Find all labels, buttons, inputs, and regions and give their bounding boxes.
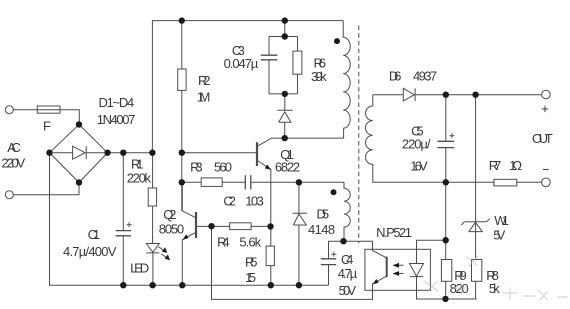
capacitor C1 bbox=[122, 153, 124, 286]
wire top rail bbox=[152, 21, 343, 153]
optocoupler box N.P521 bbox=[365, 249, 431, 290]
svg-text:D6: D6 bbox=[389, 68, 402, 83]
wire ground rail left bbox=[50, 153, 329, 286]
junction Q1 collector / primary node bbox=[282, 135, 288, 141]
transformer secondary winding bbox=[366, 95, 373, 183]
svg-text:220V: 220V bbox=[1, 156, 25, 171]
bridge D1-D4 bbox=[50, 125, 108, 183]
svg-text:AC: AC bbox=[7, 140, 21, 155]
capacitor C3 bbox=[268, 37, 270, 94]
resistor R7 bbox=[494, 179, 517, 186]
svg-text:C2: C2 bbox=[223, 194, 236, 209]
wire negative line bbox=[372, 181, 541, 183]
output - terminal bbox=[542, 178, 551, 187]
transistor Q2 bbox=[195, 212, 197, 238]
capacitor C5 bbox=[445, 95, 447, 183]
svg-text:50V: 50V bbox=[339, 283, 357, 298]
transformer feedback winding bbox=[344, 182, 350, 241]
wire C5 bottom to R9 bbox=[445, 182, 447, 299]
resistor R9 bbox=[441, 260, 451, 282]
svg-text:D5: D5 bbox=[317, 206, 330, 221]
svg-text:W1: W1 bbox=[494, 213, 509, 228]
svg-text:Q2: Q2 bbox=[163, 207, 176, 222]
junction W1 branch on +OUT line bbox=[472, 92, 478, 98]
zener W1 + R8 branch bbox=[475, 95, 477, 299]
junction snubber top on HV rail bbox=[282, 17, 288, 23]
svg-text:C1: C1 bbox=[88, 227, 101, 242]
svg-text:4148: 4148 bbox=[308, 222, 335, 237]
junction bridge bottom vertex bbox=[76, 179, 82, 185]
junction Q1 emitter / R4 / R5 node bbox=[267, 223, 273, 229]
input terminal L bbox=[5, 106, 13, 114]
svg-text:LED: LED bbox=[130, 260, 149, 275]
svg-text:220µ/: 220µ/ bbox=[402, 137, 431, 152]
resistor R1 bbox=[152, 153, 154, 244]
svg-text:R2: R2 bbox=[198, 73, 211, 88]
wire bbox=[13, 110, 79, 125]
junction feedback winding / C4 / opto node bbox=[340, 238, 346, 244]
svg-text:4.7µ/400V: 4.7µ/400V bbox=[63, 244, 117, 259]
wire opto LED anode bbox=[417, 240, 446, 263]
junction C3-R6 top bracket bbox=[282, 33, 288, 39]
transformer polarity dot feedback bbox=[331, 189, 337, 195]
svg-text:C4: C4 bbox=[341, 252, 354, 267]
wire R4 line bbox=[197, 225, 271, 227]
junction C1 top on DC rail bbox=[120, 150, 126, 156]
diode snubber bbox=[277, 110, 293, 138]
junction D5 bottom on ground rail bbox=[296, 282, 302, 288]
svg-text:N.P521: N.P521 bbox=[376, 225, 412, 240]
diode inside bridge bbox=[53, 146, 104, 159]
junction R2 top on HV rail bbox=[179, 17, 185, 23]
svg-text:R4: R4 bbox=[217, 235, 230, 250]
svg-text:560: 560 bbox=[214, 159, 232, 174]
junction Q2 emitter on ground rail bbox=[179, 282, 185, 288]
transformer primary winding bbox=[343, 21, 350, 129]
svg-text:4.7µ: 4.7µ bbox=[338, 266, 358, 281]
wire bbox=[13, 183, 79, 195]
svg-text:R7: R7 bbox=[489, 158, 502, 173]
svg-text:R5: R5 bbox=[245, 254, 258, 269]
junction R5 bottom on ground rail bbox=[268, 282, 274, 288]
input terminal N bbox=[5, 191, 13, 199]
svg-text:5.6k: 5.6k bbox=[239, 235, 261, 250]
opto transistor bbox=[386, 257, 388, 278]
svg-text:D1~D4: D1~D4 bbox=[99, 95, 135, 110]
resistor R6 bbox=[297, 37, 299, 94]
svg-text:5k: 5k bbox=[489, 281, 500, 296]
junction C1 bottom on ground rail bbox=[120, 282, 126, 288]
junction R2 bottom / Q1 base node bbox=[179, 150, 185, 156]
svg-text:0.047µ: 0.047µ bbox=[224, 56, 259, 71]
transformer polarity dot primary bbox=[334, 38, 340, 44]
resistor R2 bbox=[181, 21, 183, 211]
svg-text:1N4007: 1N4007 bbox=[97, 112, 136, 127]
resistor R5 bbox=[266, 246, 274, 266]
junction bridge right vertex bbox=[104, 150, 110, 156]
svg-text:16V: 16V bbox=[410, 159, 428, 174]
wire Q1 base bbox=[182, 152, 256, 154]
opto light arrows bbox=[395, 265, 404, 273]
diode D6 bbox=[373, 88, 542, 101]
junction bridge top vertex bbox=[76, 121, 82, 127]
junction C5 top on +OUT line bbox=[443, 92, 449, 98]
output + terminal bbox=[542, 90, 551, 99]
capacitor C4 bbox=[329, 241, 344, 285]
svg-text:8050: 8050 bbox=[159, 221, 184, 236]
wire primary bottom bbox=[285, 128, 344, 138]
junction C5 bottom on -OUT line bbox=[443, 179, 449, 185]
svg-text:OUT: OUT bbox=[532, 131, 553, 146]
svg-text:220k: 220k bbox=[127, 171, 152, 186]
svg-text:103: 103 bbox=[245, 194, 263, 209]
minus sign at - terminal bbox=[543, 169, 549, 171]
LED bbox=[146, 244, 159, 286]
svg-text:4937: 4937 bbox=[413, 68, 437, 83]
resistor R4 bbox=[230, 223, 251, 230]
opto LED bbox=[410, 264, 477, 300]
svg-text:39k: 39k bbox=[311, 69, 327, 84]
capacitor C2 bbox=[245, 175, 251, 189]
junction R9 bottom node bbox=[442, 296, 448, 302]
watermark smudges bbox=[424, 256, 567, 300]
snubber network stub bbox=[269, 21, 298, 111]
junction C3-R6 bottom bracket bbox=[282, 91, 288, 97]
fuse F bbox=[37, 106, 60, 113]
svg-text:1Ω: 1Ω bbox=[509, 158, 522, 173]
diode D5 bbox=[293, 182, 308, 285]
transformer core dashed bbox=[358, 26, 360, 244]
svg-text:5V: 5V bbox=[493, 228, 505, 243]
resistor R3 bbox=[182, 181, 245, 183]
junction R3 left node bbox=[179, 179, 185, 185]
resistor R8 bbox=[472, 260, 482, 282]
plus sign at + terminal bbox=[542, 106, 549, 170]
svg-text:F: F bbox=[43, 119, 51, 134]
junction LED cathode on ground rail bbox=[149, 282, 155, 288]
svg-text:15: 15 bbox=[245, 270, 256, 285]
junction R9 / opto LED anode node bbox=[443, 237, 449, 243]
svg-text:1M: 1M bbox=[197, 89, 211, 104]
wire dc rail bbox=[108, 152, 153, 154]
svg-text:R1: R1 bbox=[131, 156, 144, 171]
junction D5 top node bbox=[296, 179, 302, 185]
transistor Q1 bbox=[256, 142, 258, 166]
wire bbox=[251, 181, 344, 183]
svg-text:6822: 6822 bbox=[275, 159, 300, 174]
junction bridge left vertex bbox=[46, 150, 52, 156]
svg-text:R3: R3 bbox=[190, 159, 203, 174]
junction Q2 base / R4 node bbox=[208, 223, 214, 229]
junction R1 / top-rail link node bbox=[149, 150, 155, 156]
